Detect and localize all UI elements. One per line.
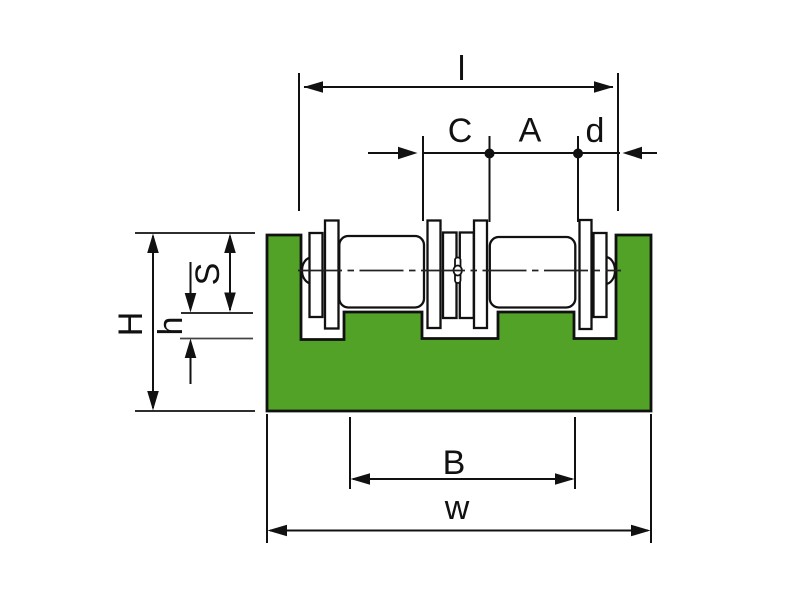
dimension C/A/d: line (423, 152, 620, 154)
inner plate right of roller1 (428, 221, 441, 329)
dimension w extension lines (266, 414, 268, 543)
svg-text:H: H (112, 312, 150, 337)
dimension h arrows (190, 262, 192, 296)
svg-text:h: h (152, 317, 190, 336)
pin end right (596, 257, 615, 284)
svg-text:l: l (458, 50, 466, 88)
pin end left (302, 258, 321, 284)
inner plate right of roller2 (580, 220, 592, 329)
dimension S (229, 236, 231, 310)
node A/d (573, 149, 583, 159)
inner plate left of roller2 (474, 221, 487, 329)
outer plate far-left (310, 233, 323, 317)
dimension l: line and arrows (304, 86, 613, 88)
arrow outside left (368, 152, 400, 154)
link plates (310, 220, 607, 329)
svg-text:S: S (189, 263, 227, 286)
svg-text:C: C (448, 112, 473, 150)
outer plate far-right (594, 233, 607, 317)
middle pin assembly (454, 258, 462, 284)
outer plate mid-left (443, 233, 457, 319)
dimension B (353, 478, 572, 480)
svg-text:B: B (443, 444, 466, 482)
dimension w (270, 530, 648, 532)
svg-text:d: d (586, 112, 605, 150)
roller 1 (339, 236, 424, 308)
dimension B extension lines (349, 417, 351, 489)
roller 2 (490, 237, 576, 308)
node C/A (485, 149, 495, 159)
dimension l: extension lines (298, 73, 300, 211)
svg-text:A: A (519, 112, 542, 150)
dimension H (152, 236, 154, 408)
svg-text:w: w (444, 489, 470, 527)
arrow outside right (641, 152, 657, 154)
chain centerline (298, 270, 621, 272)
dimension C/A/d: extension lines (422, 136, 424, 221)
guide rail green profile (267, 235, 651, 411)
outer plate mid-right (460, 233, 474, 319)
inner plate left of roller1 (325, 221, 339, 329)
left extension lines (135, 232, 255, 234)
